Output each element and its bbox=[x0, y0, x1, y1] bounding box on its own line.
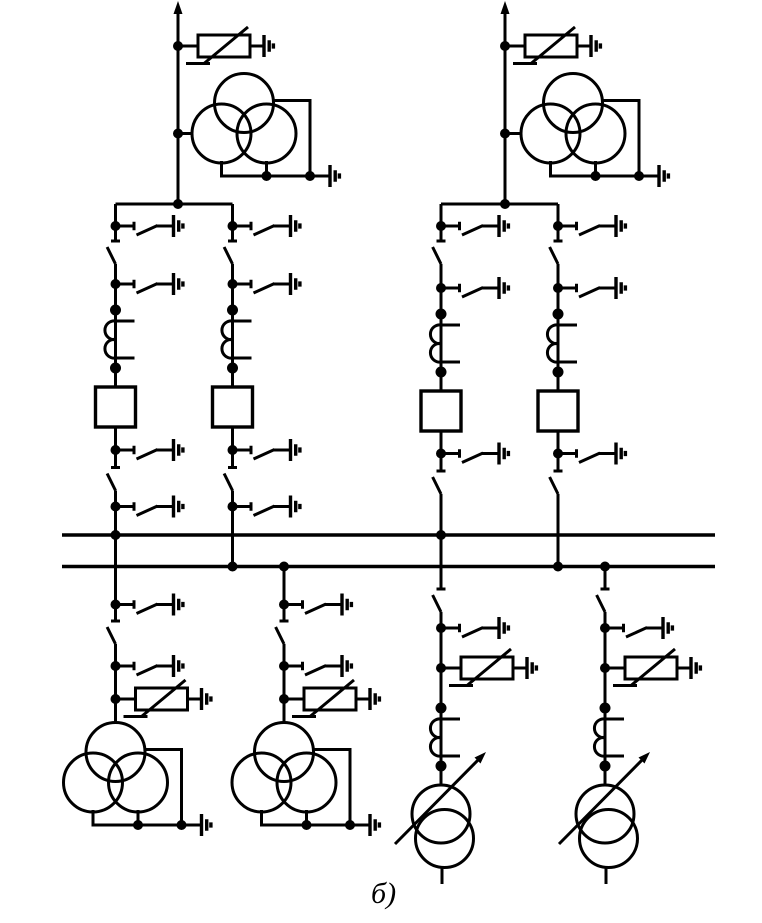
wire feeder4 lower bbox=[604, 612, 607, 785]
disconnector feeder1 bbox=[107, 621, 120, 644]
wire left split header bbox=[116, 203, 233, 206]
voltage transformer TV2 (three windings) with ground bbox=[521, 74, 668, 188]
earthing switch branch1-3 bbox=[111, 439, 183, 461]
earthing switch feeder1-2 bbox=[111, 655, 183, 677]
node T right split bbox=[500, 199, 510, 209]
node T left split bbox=[173, 199, 183, 209]
earthing switch branch2-4 bbox=[228, 496, 300, 518]
earthing switch branch3-2 bbox=[436, 277, 508, 299]
wire branch4 to busbar2 bbox=[557, 494, 560, 567]
wire branch3 mid bbox=[440, 264, 443, 391]
earthing switch feeder3 bbox=[436, 617, 508, 639]
svg-text:б): б) bbox=[371, 877, 396, 910]
earthing switch branch1-2 bbox=[111, 273, 183, 295]
wire feeder4 upper bbox=[604, 567, 607, 590]
wire branch1 to busbar and feeder1 bbox=[114, 491, 117, 622]
transformer T3 (regulated, two windings) bbox=[395, 752, 486, 884]
earthing switch feeder1-1 bbox=[111, 594, 183, 616]
wire feeder3 lower bbox=[440, 612, 443, 785]
disconnector branch1 lower bbox=[107, 468, 120, 491]
wire branch3 through busbars to feeder3 bbox=[440, 494, 443, 589]
earthing switch feeder4 bbox=[600, 617, 672, 639]
disconnector branch1 upper bbox=[107, 241, 120, 264]
earthing switch branch4-3 bbox=[553, 443, 625, 465]
surge arrester feeder2 with ground bbox=[279, 680, 379, 717]
surge arrester feeder3 with ground bbox=[436, 649, 536, 686]
right incoming line arrow bbox=[501, 1, 510, 14]
disconnector feeder3 bbox=[433, 589, 446, 612]
busbar 1 bbox=[62, 533, 715, 536]
current transformer branch4 bbox=[547, 309, 577, 378]
earthing switch branch1-1 bbox=[111, 215, 183, 237]
disconnector feeder4 bbox=[597, 589, 610, 612]
wire branch4 below breaker bbox=[557, 431, 560, 471]
node branch2 bus2 bbox=[228, 562, 238, 572]
node feeder2 bus2 bbox=[279, 562, 289, 572]
disconnector feeder2 bbox=[276, 621, 289, 644]
wire branch2 mid bbox=[231, 264, 234, 387]
disconnector branch3 lower bbox=[433, 471, 446, 494]
earthing switch branch3-3 bbox=[436, 443, 508, 465]
disconnector branch4 upper bbox=[550, 241, 563, 264]
current transformer feeder3 bbox=[430, 703, 460, 772]
wire branch3 below breaker bbox=[440, 431, 443, 471]
wire feeder2 upper bbox=[283, 567, 286, 622]
earthing switch branch2-2 bbox=[228, 273, 300, 295]
earthing switch branch1-4 bbox=[111, 496, 183, 518]
circuit breaker Q4 bbox=[538, 391, 578, 431]
node left line to transformer TV1 bbox=[178, 132, 193, 135]
wire left incoming line bbox=[177, 8, 180, 204]
disconnector branch2 upper bbox=[224, 241, 237, 264]
earthing switch branch4-1 bbox=[553, 215, 625, 237]
voltage transformer TV1 (three windings) with ground bbox=[192, 74, 339, 188]
busbar 2 bbox=[62, 565, 715, 568]
wire branch1 mid bbox=[114, 264, 117, 387]
circuit breaker Q1 bbox=[96, 387, 136, 427]
node right line to transformer TV2 bbox=[505, 132, 522, 135]
earthing switch feeder2-1 bbox=[279, 594, 351, 616]
left incoming line arrow bbox=[174, 1, 183, 14]
circuit breaker Q3 bbox=[421, 391, 461, 431]
wire branch2 upper bbox=[231, 204, 234, 241]
disconnector branch2 lower bbox=[224, 468, 237, 491]
disconnector branch4 lower bbox=[550, 471, 563, 494]
surge arrester FV2 with ground bbox=[500, 27, 600, 64]
wire branch2 to busbar2 bbox=[231, 491, 234, 567]
earthing switch feeder2-2 bbox=[279, 655, 351, 677]
surge arrester feeder1 with ground bbox=[111, 680, 211, 717]
wire right incoming line bbox=[504, 8, 507, 204]
node branch1 bus1 bbox=[111, 530, 121, 540]
wire branch3 upper bbox=[440, 204, 443, 241]
earthing switch branch2-3 bbox=[228, 439, 300, 461]
disconnector branch3 upper bbox=[433, 241, 446, 264]
surge arrester feeder4 with ground bbox=[600, 649, 700, 686]
wire feeder2 lower bbox=[283, 644, 286, 723]
current transformer branch1 bbox=[105, 305, 135, 374]
circuit breaker Q2 bbox=[213, 387, 253, 427]
transformer T1 (three windings) with ground bbox=[64, 723, 211, 837]
wire branch2 below breaker bbox=[231, 427, 234, 468]
node feeder4 bus2 bbox=[600, 562, 610, 572]
transformer T2 (three windings) with ground bbox=[232, 723, 379, 837]
wire branch1 upper bbox=[114, 204, 117, 241]
wire branch4 mid bbox=[557, 264, 560, 391]
wire branch4 upper bbox=[557, 204, 560, 241]
transformer T4 (regulated, two windings) bbox=[559, 752, 650, 884]
wire right split header bbox=[441, 203, 558, 206]
node branch4 bus2 bbox=[553, 562, 563, 572]
current transformer feeder4 bbox=[594, 703, 624, 772]
earthing switch branch3-1 bbox=[436, 215, 508, 237]
node branch3 bus1 bbox=[436, 530, 446, 540]
current transformer branch3 bbox=[430, 309, 460, 378]
current transformer branch2 bbox=[222, 305, 252, 374]
wire feeder1 lower bbox=[114, 644, 117, 723]
wire branch1 below breaker bbox=[114, 427, 117, 468]
earthing switch branch2-1 bbox=[228, 215, 300, 237]
earthing switch branch4-2 bbox=[553, 277, 625, 299]
surge arrester FV1 with ground bbox=[173, 27, 273, 64]
